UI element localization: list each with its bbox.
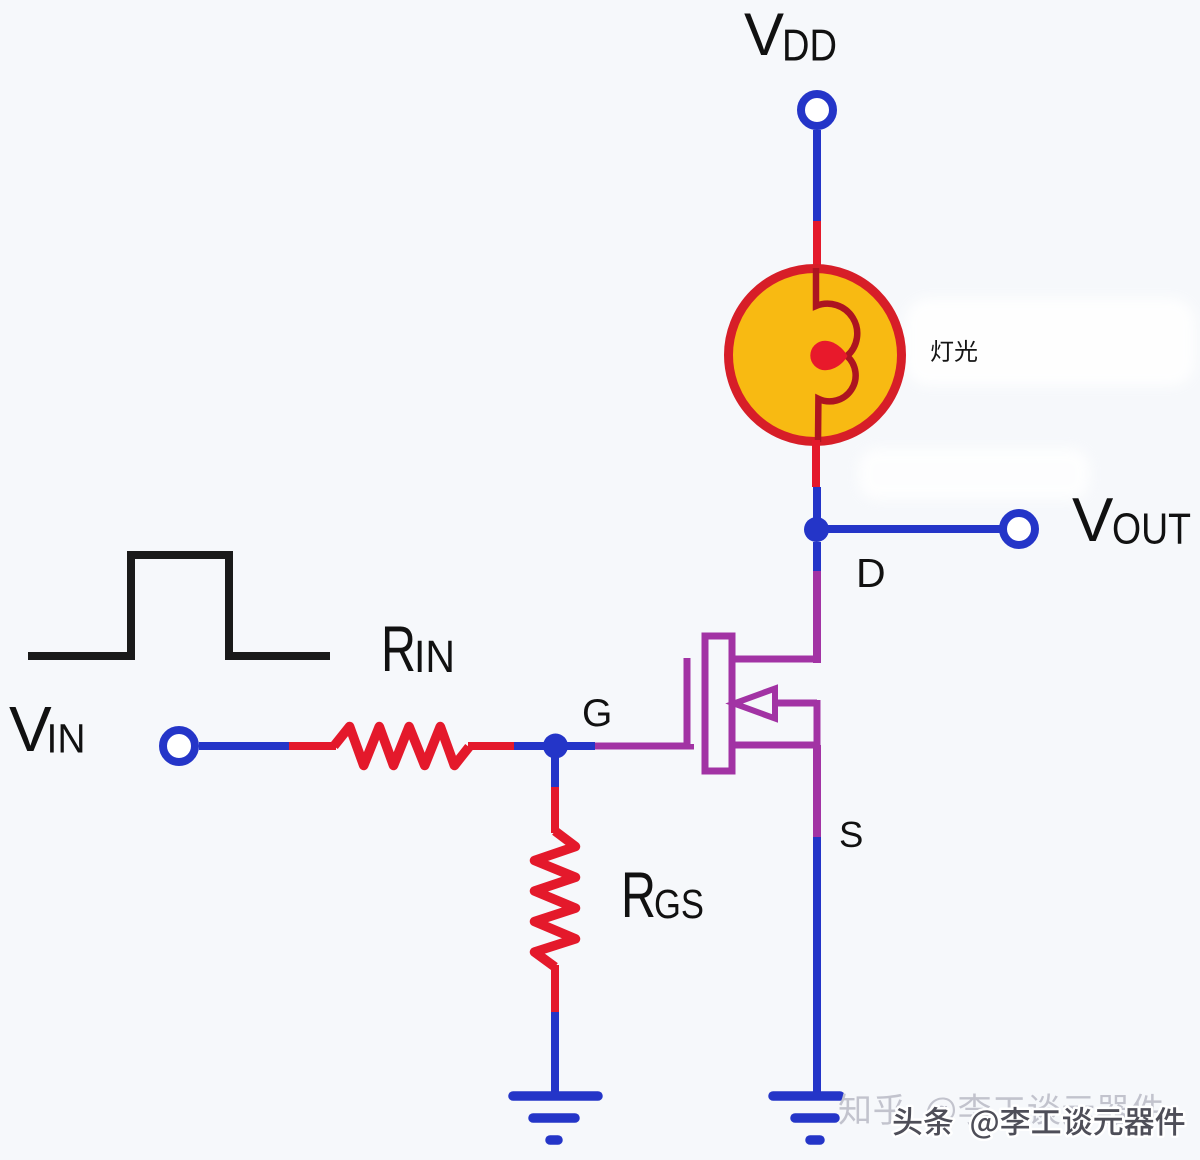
- label RGS: [621, 859, 704, 931]
- label VOUT: [1072, 486, 1191, 555]
- svg-text:D: D: [856, 550, 886, 596]
- label VDD: [744, 1, 837, 71]
- svg-text:OUT: OUT: [1112, 506, 1191, 554]
- lamp filament dot: [810, 341, 847, 370]
- svg-text:DD: DD: [782, 22, 837, 71]
- wire RGS to ground blue segment: [551, 1012, 559, 1096]
- transistor Q1 source lead: [732, 742, 817, 749]
- lamp DS1 body: [729, 269, 902, 442]
- svg-text:R: R: [621, 859, 656, 931]
- wire source purple segment: [813, 745, 821, 837]
- wire VDD blue segment: [813, 130, 821, 221]
- wire source blue segment to ground: [813, 837, 821, 1094]
- node D junction dot: [804, 517, 829, 542]
- wire node G to gate blue stub: [556, 742, 595, 750]
- white patch above vout wire: [858, 448, 1090, 500]
- pulse waveform: [28, 555, 330, 656]
- terminal VIN: [163, 730, 195, 762]
- wire VIN red segment: [289, 742, 336, 750]
- resistor RIN: [334, 727, 469, 766]
- svg-text:R: R: [381, 613, 416, 685]
- svg-text:V: V: [744, 1, 784, 68]
- ground right bar2: [795, 1113, 835, 1123]
- wire RIN to node G blue segment: [514, 742, 556, 750]
- label RIN: [381, 613, 455, 685]
- resistor RGS: [535, 831, 576, 967]
- transistor Q1 body lead arrow: [734, 689, 775, 719]
- wire RGS to ground red segment: [551, 965, 559, 1012]
- lamp filament: [816, 268, 857, 442]
- ground left bar2: [533, 1113, 575, 1123]
- transistor Q1 drain lead: [732, 656, 817, 663]
- white patch near lamp label: [905, 298, 1195, 386]
- ground left bar3: [550, 1135, 558, 1145]
- svg-text:S: S: [839, 814, 863, 855]
- watermark toutiao dark: [893, 1107, 1184, 1139]
- ground right bar3: [810, 1135, 820, 1145]
- svg-text:IN: IN: [414, 631, 455, 682]
- svg-text:G: G: [582, 692, 612, 735]
- wire drain purple segment: [813, 571, 821, 663]
- node G junction dot: [543, 734, 568, 759]
- watermark zhihu light: [839, 1093, 1163, 1127]
- svg-text:V: V: [1072, 486, 1114, 555]
- transistor Q1 body lead: [775, 700, 817, 707]
- label 灯光: [931, 340, 977, 362]
- terminal VOUT: [1003, 513, 1035, 545]
- wire node G down red segment: [551, 787, 559, 833]
- transistor Q1 channel plate: [705, 636, 732, 771]
- wire lamp to node D blue segment: [813, 487, 821, 529]
- transistor Q1 gate bar: [684, 658, 691, 746]
- ground left bar1: [513, 1091, 598, 1101]
- label VIN: [9, 693, 86, 765]
- svg-text:IN: IN: [47, 716, 86, 762]
- ground right bar1: [773, 1091, 840, 1101]
- wire VDD red segment to lamp: [813, 221, 821, 272]
- terminal VDD: [801, 94, 833, 126]
- wire node D to VOUT: [817, 525, 1000, 533]
- wire VIN blue segment: [199, 742, 289, 750]
- wire lamp to node D red segment: [812, 440, 820, 487]
- wire RIN to node G red segment: [468, 742, 514, 750]
- wire gate from node G purple: [595, 744, 691, 746]
- transistor Q1 body-source vertical: [814, 700, 821, 748]
- wire drain blue segment: [813, 542, 821, 571]
- wire node G down blue segment: [551, 746, 559, 787]
- svg-text:GS: GS: [654, 881, 704, 927]
